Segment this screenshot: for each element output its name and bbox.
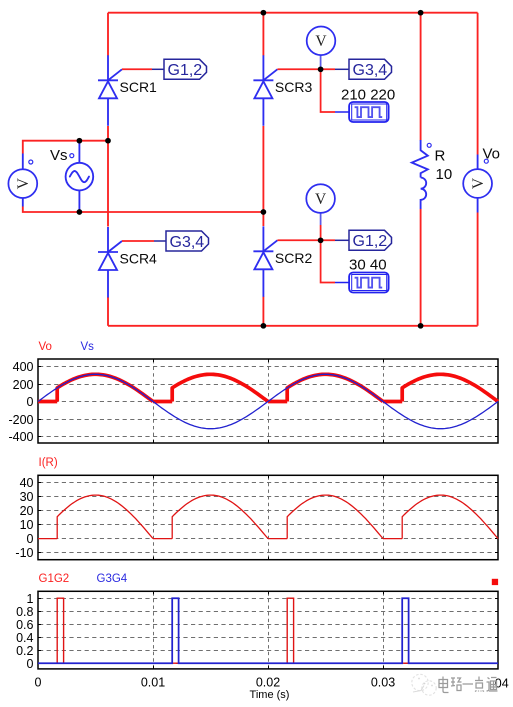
wire: AC source bottom wire [23,207,264,213]
svg-text:20: 20 [20,504,34,518]
svg-text:V: V [315,191,327,208]
svg-text:-200: -200 [8,413,33,427]
voltmeter (across Vs) [8,169,37,198]
gate terminal bubble G3,4 (SCR4) [166,231,209,251]
x axis labels [35,676,509,691]
voltmeter Vo leads [477,155,479,213]
svg-text:10: 10 [436,166,453,183]
svg-text:-10: -10 [15,546,33,560]
wire: SCR2 gate to pulse source [321,240,335,282]
svg-text:0: 0 [27,395,34,409]
wire: top rail [108,12,478,14]
svg-text:G3,4: G3,4 [353,62,388,79]
Vs waveform (blue sine) [38,374,498,428]
svg-text:400: 400 [13,360,34,374]
svg-text:0.6: 0.6 [16,618,33,632]
I(R) waveform (red) [38,495,498,538]
thyristor SCR3 [253,55,277,126]
wire: AC source top wire [23,141,108,154]
svg-text:0: 0 [35,676,42,690]
thyristor SCR2 [253,226,277,296]
svg-text:G3,4: G3,4 [170,234,205,251]
svg-text:G1,2: G1,2 [168,62,203,79]
G1G2 gate pulse waveform (red) [38,598,498,663]
wire: R branch top [420,13,422,141]
svg-text:-400: -400 [8,430,33,444]
AC voltage source Vs [66,163,94,191]
thyristor SCR4 [98,227,122,298]
Vo waveform (thick red) [38,374,498,401]
wire: R branch bottom [420,209,422,326]
wire: Vo branch bottom [477,213,479,326]
wire: SCR1 gate to G1,2 [122,68,152,70]
G3G4 gate pulse waveform (blue) [38,598,498,663]
pulse source 210-220 (for SCR3/SCR4) [349,102,389,122]
watermark text dian lu yi dian tong [439,677,498,693]
voltmeter V (SCR2 gate) [320,213,322,225]
thyristor SCR1 [98,55,122,126]
inductor part of load [421,178,427,210]
red marker square [492,579,498,585]
wire: Vo branch top [477,13,479,155]
svg-text:SCR3: SCR3 [275,79,313,95]
svg-text:0.03: 0.03 [371,676,395,690]
svg-text:G1G2: G1G2 [39,573,70,585]
svg-text:G3G4: G3G4 [97,573,128,585]
svg-text:V: V [15,177,32,189]
svg-text:40: 40 [20,476,34,490]
svg-text:30: 30 [20,490,34,504]
svg-text:Vs: Vs [50,147,68,164]
svg-text:200: 200 [13,378,34,392]
svg-text:Vs: Vs [81,341,95,353]
svg-text:0.8: 0.8 [16,605,33,619]
svg-text:V: V [315,33,327,50]
gate terminal bubble G1,2 (SCR2) [349,230,392,250]
pulse source 30-40 (for SCR1/SCR2) [349,273,389,293]
wire: bottom rail [108,325,478,327]
svg-text:Time (s): Time (s) [250,689,290,701]
svg-text:30 40: 30 40 [349,257,387,274]
wire: Vs leads [78,141,80,212]
wire: SCR3 gate to pulse source [321,69,335,112]
svg-text:SCR4: SCR4 [120,251,158,267]
svg-text:0: 0 [27,657,34,671]
voltmeter (across Vs) leads [22,154,24,207]
watermark logo [412,674,436,695]
svg-text:Vo: Vo [39,341,52,353]
svg-text:0.02: 0.02 [256,676,280,690]
svg-text:I(R): I(R) [39,457,58,469]
plot 2 frame and grid [38,475,498,559]
plot 3 frame and grid [38,591,498,669]
wire: SCR2 gate node [277,239,335,241]
svg-text:SCR2: SCR2 [275,250,313,266]
voltmeter V (SCR3 gate) [320,55,322,69]
svg-text:G1,2: G1,2 [353,233,388,250]
gate terminal bubble G3,4 (SCR3) [349,59,392,79]
wire: left leg (SCR1/SCR4 branch) [107,13,109,326]
gate terminal bubble G1,2 (SCR1) [164,59,207,79]
svg-text:210 220: 210 220 [341,87,395,104]
wire: SCR3 gate node [277,68,335,70]
svg-text:V: V [470,177,487,189]
svg-text:R: R [435,148,446,165]
junction nodes [77,10,424,329]
svg-text:0: 0 [27,532,34,546]
svg-text:SCR1: SCR1 [120,79,158,95]
svg-text:0.01: 0.01 [141,676,165,690]
wire: SCR4 gate to G3,4 [122,240,154,242]
voltmeter Vo [463,169,492,198]
svg-text:1: 1 [27,592,34,606]
svg-text:10: 10 [20,518,34,532]
resistor R 10 (load) [412,140,428,178]
plot 1 frame and grid [38,359,498,443]
wire: right leg (SCR3/SCR2 branch) [262,13,264,326]
svg-text:0.2: 0.2 [16,644,33,658]
svg-text:0.4: 0.4 [16,631,33,645]
